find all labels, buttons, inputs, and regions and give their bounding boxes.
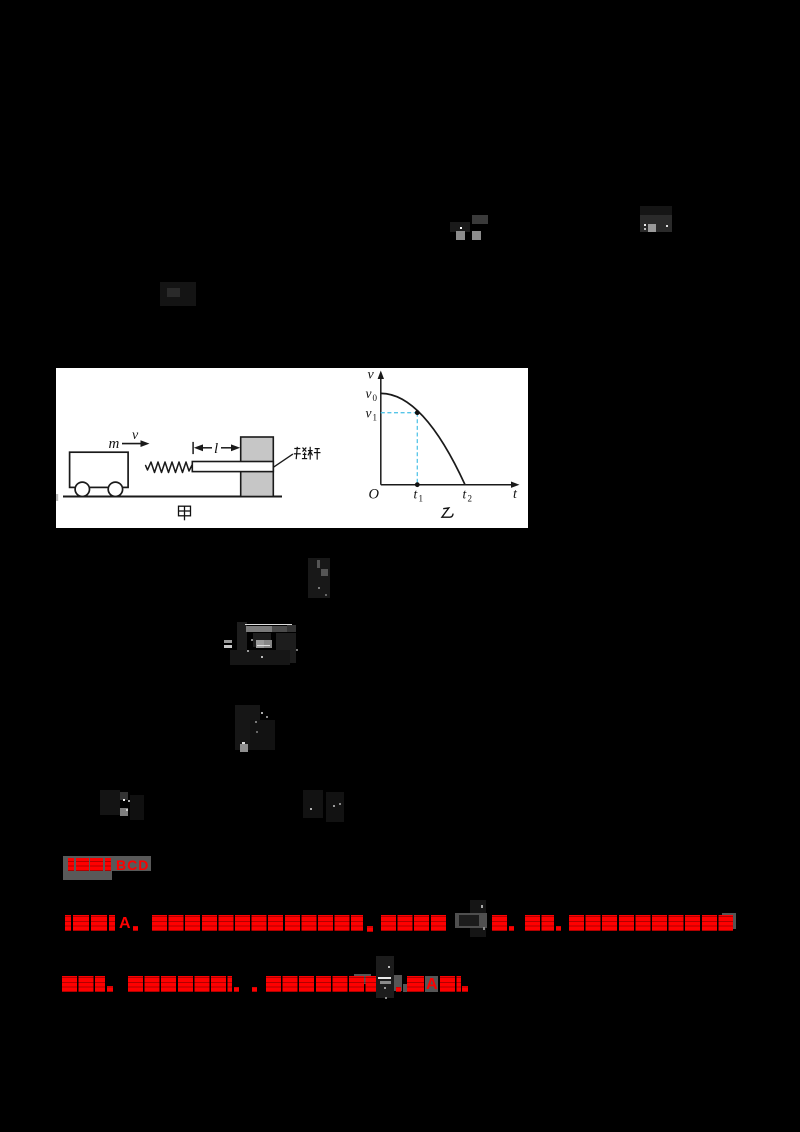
solution line 2 red text [62,976,105,993]
label 轻 (glyph strokes) [294,447,307,459]
ghost formula fragment G7a [100,790,120,815]
gray selection bits around formula in line 2 [354,974,371,984]
ghost formula fragment G2 [640,206,672,216]
rod (through slot) [192,462,273,472]
ghost formula fragment G6 [235,705,260,750]
gray selection behind A in line 2 [425,976,438,992]
svg-text:v: v [366,406,372,421]
l measurement tick [192,442,194,454]
velocity arrow v [122,443,145,445]
svg-text:m: m [109,436,120,452]
svg-text:v: v [132,428,139,443]
edge nub [56,494,58,501]
trailing gray selection sliver [722,913,736,929]
svg-text:0: 0 [373,393,378,403]
label 甲 (glyph strokes) [179,506,191,520]
pointer line to label [273,454,293,467]
dashed guide horizontal [381,412,418,414]
label 杆 (glyph strokes) [308,447,321,460]
inline fraction formula (dark) in line 2 [376,956,394,998]
solution line 1 red text 【解析】A、小车... [65,915,71,931]
answer line: red text 【答案】BCD [68,858,74,871]
dashed guide vertical [416,413,418,485]
figure image (white panel) [56,368,528,528]
point on axis t1 [415,482,420,487]
ghost formula fragment G4 [308,558,330,598]
ground [63,496,282,498]
ghost formula fragment G1 [450,222,470,232]
answer line: gray selection highlight (L-shape) [63,856,151,871]
cart body [70,452,129,487]
svg-text:O: O [369,487,380,503]
cart wheel left [75,482,89,496]
svg-text:2: 2 [468,494,473,504]
inline selected formula (dark) in line 1 [470,900,486,913]
point on curve [415,410,420,415]
svg-text:t: t [513,487,518,502]
svg-text:v: v [368,368,375,383]
svg-text:1: 1 [373,413,378,423]
x axis [381,484,515,486]
stray speck [385,997,387,999]
ghost fragment G3 [160,282,196,306]
l arrow left [194,444,203,451]
ghost formula fragment G5 (selected equation) [237,622,247,652]
ghost formula fragment G7b [303,790,323,818]
spring [146,462,193,473]
line 2 red text continues [396,987,401,992]
curve [381,393,465,484]
svg-text:l: l [214,441,218,457]
cart wheel right [108,482,122,496]
svg-text:v: v [366,386,372,401]
label 乙 (glyph strokes) [442,508,453,517]
svg-text:1: 1 [419,494,424,504]
wall block [241,437,274,497]
v-t graph: y axis [380,375,382,485]
line 1 red text continues [492,915,507,932]
l arrow right [221,447,233,449]
